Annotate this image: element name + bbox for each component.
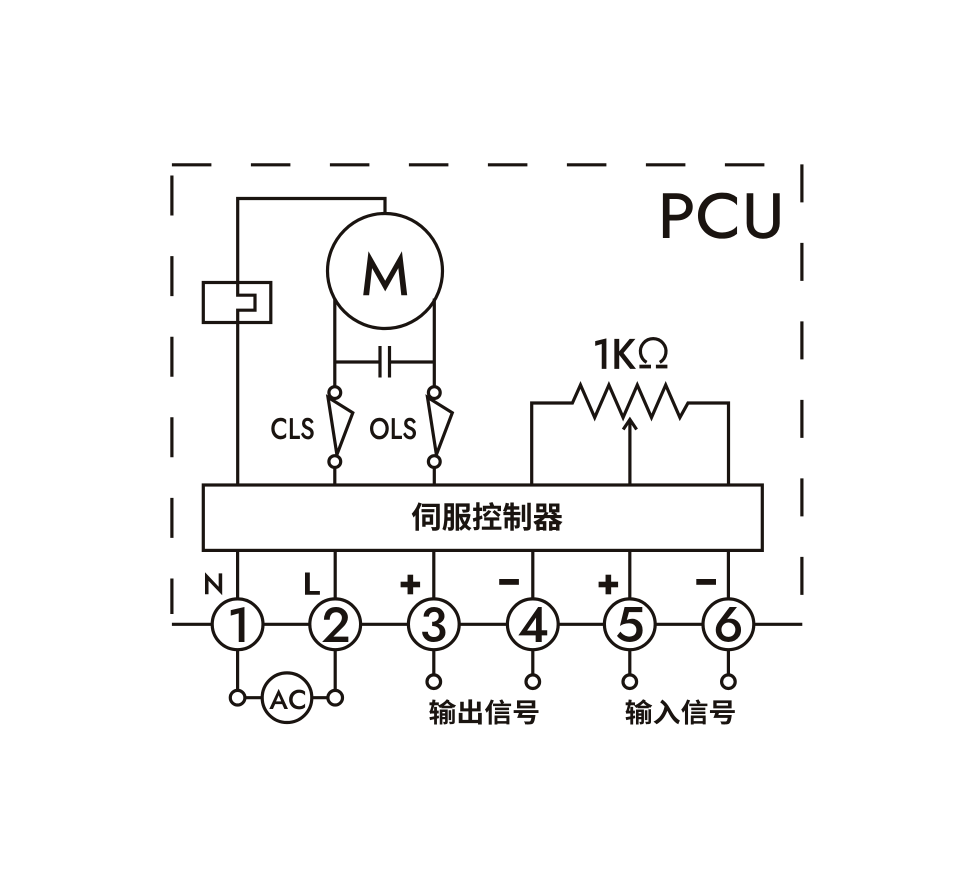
wire controller to terminal 1 bbox=[236, 550, 239, 600]
wire terminal 3 signal stub bbox=[432, 650, 435, 676]
label L bbox=[305, 572, 320, 594]
label 输出信号 bbox=[429, 699, 538, 724]
wire motor right lead bbox=[433, 299, 436, 387]
switch CLS blade bbox=[328, 397, 353, 454]
wire AC node to AC source bbox=[245, 696, 262, 699]
wire motor left lead bbox=[333, 299, 336, 387]
terminal 6 bbox=[703, 599, 754, 650]
label + terminal 3 bbox=[401, 575, 421, 595]
label 输入信号 bbox=[626, 699, 735, 724]
wire controller to terminal 2 bbox=[334, 550, 337, 600]
terminal 2 bbox=[310, 599, 361, 650]
wire terminal 4 signal stub bbox=[531, 650, 534, 676]
switch CLS contact top bbox=[329, 387, 341, 399]
switch OLS contact top bbox=[428, 387, 440, 399]
terminal 3 signal node circle bbox=[427, 675, 441, 689]
wire controller to terminal 4 bbox=[531, 550, 534, 600]
label − terminal 4 bbox=[499, 579, 519, 585]
switch CLS contact bottom bbox=[329, 456, 341, 468]
terminal 5 bbox=[604, 599, 655, 650]
motor M1 circle bbox=[328, 214, 443, 329]
wire CLS to controller bbox=[333, 468, 336, 488]
PCU enclosure dashed border left bbox=[170, 176, 173, 615]
PCU enclosure dashed border top bbox=[172, 163, 802, 166]
terminal bus wire bbox=[172, 623, 802, 626]
switch OLS blade bbox=[428, 397, 453, 454]
label omega of 1KΩ bbox=[639, 339, 667, 369]
PCU enclosure dashed border right bbox=[800, 164, 803, 596]
potentiometer 1KΩ resistor body bbox=[532, 385, 729, 487]
switch OLS contact bottom bbox=[428, 456, 440, 468]
wire controller to terminal 5 bbox=[628, 550, 631, 600]
label 1KΩ bbox=[595, 338, 636, 368]
terminal 5 signal node circle bbox=[623, 675, 637, 689]
terminal 4 bbox=[507, 599, 558, 650]
wire thermal cutout to controller bbox=[236, 323, 239, 488]
terminal 6 signal node circle bbox=[722, 675, 736, 689]
potentiometer wiper arrow bbox=[623, 420, 636, 488]
label 伺服控制器 bbox=[412, 502, 563, 531]
AC node right circle bbox=[328, 690, 343, 705]
label N bbox=[205, 572, 222, 595]
wire from motor top to thermal cutout bbox=[238, 199, 385, 284]
wire terminal 6 signal stub bbox=[727, 650, 730, 676]
terminal 4 signal node circle bbox=[526, 675, 540, 689]
AC source circle bbox=[262, 673, 312, 723]
label OLS bbox=[370, 418, 416, 440]
wire AC source to right node bbox=[312, 696, 328, 699]
label CLS bbox=[271, 418, 313, 440]
label + terminal 5 bbox=[599, 575, 619, 595]
motor label M bbox=[363, 251, 407, 295]
terminal 1 bbox=[212, 599, 263, 650]
wire terminal 1 to AC node bbox=[236, 650, 239, 691]
AC node left circle bbox=[230, 690, 245, 705]
thermal cutout bbox=[203, 283, 270, 323]
label AC bbox=[269, 689, 305, 710]
wire terminal 5 signal stub bbox=[628, 650, 631, 676]
terminal 3 bbox=[408, 599, 459, 650]
label − terminal 6 bbox=[696, 579, 716, 585]
wire controller to terminal 6 bbox=[727, 550, 730, 600]
servo controller box bbox=[203, 485, 762, 550]
label PCU bbox=[663, 193, 780, 239]
capacitor bbox=[335, 346, 435, 378]
wire OLS to controller bbox=[433, 468, 436, 488]
wire controller to terminal 3 bbox=[432, 550, 435, 600]
wire AC node to terminal 2 bbox=[334, 650, 337, 691]
